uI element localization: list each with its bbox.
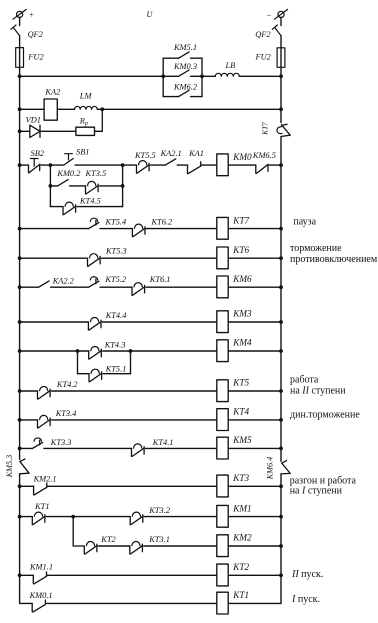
relay coil KM0 (217, 154, 228, 176)
wire (228, 164, 255, 166)
svg-text:КТ4.1: КТ4.1 (152, 438, 174, 447)
node junction 281.0,258.2 (279, 256, 283, 260)
svg-text:КМ5: КМ5 (232, 435, 252, 445)
svg-text:КМ1.1: КМ1.1 (29, 563, 53, 572)
svg-text:КМ0.1: КМ0.1 (29, 591, 53, 600)
wire (20, 447, 33, 449)
wire (48, 574, 218, 576)
svg-text:SB2: SB2 (31, 149, 45, 158)
svg-text:КА2.2: КА2.2 (52, 276, 74, 285)
relay coil KT4 (217, 409, 228, 431)
svg-text:КТ3: КТ3 (232, 473, 249, 483)
node junction 77.5,351.0 (76, 349, 80, 353)
breaker QF2 left (11, 25, 20, 36)
branch verticals row6 (78, 351, 131, 374)
node junction 50.4,165.1 (49, 163, 53, 167)
node junction 50.4,185.9 (49, 184, 53, 188)
wire (20, 574, 34, 576)
relay coil KM3 (217, 311, 228, 333)
node junction 19.6,391.0 (18, 389, 22, 393)
wire (19, 36, 21, 48)
wire (103, 373, 131, 375)
svg-text:КМ0: КМ0 (232, 152, 252, 162)
svg-text:FU2: FU2 (27, 52, 43, 61)
relay coil KT2 (217, 564, 228, 586)
contact KT7 (timed, in right rail) (281, 124, 290, 136)
svg-text:на II ступени: на II ступени (290, 385, 346, 396)
relay coil KT5 (217, 380, 228, 402)
wire (102, 257, 218, 259)
wire (20, 516, 33, 518)
svg-text:КТ1: КТ1 (232, 590, 249, 600)
svg-text:КТ5.4: КТ5.4 (105, 218, 127, 227)
node junction 202,76.3 (200, 74, 204, 78)
fuse FU2 right (277, 48, 285, 68)
wire (202, 75, 215, 77)
wire (20, 602, 33, 604)
wire (46, 516, 130, 518)
wire (146, 447, 218, 449)
svg-text:II пуск.: II пуск. (291, 569, 323, 580)
svg-text:КА2.1: КА2.1 (160, 149, 182, 158)
svg-text:КМ3: КМ3 (232, 309, 252, 319)
svg-text:торможение: торможение (290, 243, 342, 254)
relay coil KT6 (217, 247, 228, 269)
node junction 281.0,391.0 (279, 389, 283, 393)
svg-text:КТ1: КТ1 (34, 502, 49, 511)
svg-text:КМ6: КМ6 (232, 274, 252, 284)
node junction 281.0,546.0 (279, 544, 283, 548)
svg-text:КМ0.3: КМ0.3 (173, 62, 197, 71)
wire (228, 321, 281, 323)
wire (70, 185, 86, 187)
wire (19, 474, 21, 604)
svg-text:LM: LM (79, 91, 93, 100)
contact KM5.3 (in left rail) (20, 459, 30, 474)
wire (269, 164, 281, 166)
svg-text:КТ4.2: КТ4.2 (56, 380, 78, 389)
top bus wire (20, 75, 164, 77)
node junction 130.5,351.0 (129, 349, 133, 353)
wire (40, 130, 76, 132)
svg-text:противовключением: противовключением (290, 254, 378, 265)
wire (75, 164, 136, 166)
svg-text:КТ3.1: КТ3.1 (148, 535, 170, 544)
svg-text:QF2: QF2 (255, 30, 270, 39)
wire (19, 67, 21, 459)
node junction 19.6,109.3 (18, 107, 22, 111)
svg-text:КТ5.5: КТ5.5 (134, 151, 156, 160)
node junction 163.2,76.3 (161, 74, 165, 78)
svg-text:КТ3.2: КТ3.2 (148, 506, 170, 515)
svg-text:КТ3.5: КТ3.5 (85, 169, 107, 178)
fuse FU2 left (16, 48, 24, 68)
node junction 281.0,486.3 (279, 484, 283, 488)
svg-text:КТ6: КТ6 (232, 245, 249, 255)
node junction 122.6,185.9 (121, 184, 125, 188)
breaker QF2 right (272, 25, 281, 36)
node junction 281.0,287.2 (279, 285, 283, 289)
wire (228, 602, 281, 604)
wire (20, 350, 89, 352)
node junction 19.6,76.3 (18, 74, 22, 78)
wire (44, 447, 132, 449)
wire (95, 109, 103, 131)
node junction 19.6,287.2 (18, 285, 22, 289)
wire (100, 286, 132, 288)
wire (151, 164, 166, 166)
wire (228, 350, 281, 352)
wire (280, 137, 282, 462)
relay coil KM6 (217, 276, 228, 298)
wire (20, 257, 88, 259)
wire (52, 419, 218, 421)
svg-text:КТ5.3: КТ5.3 (105, 247, 127, 256)
node junction 281.0,76.3 (279, 74, 283, 78)
node junction 19.6,351.0 (18, 349, 22, 353)
wire (100, 185, 123, 187)
svg-text:КТ2: КТ2 (232, 562, 249, 572)
node junction 19.6,165.1 (18, 163, 22, 167)
wire (228, 545, 281, 547)
svg-text:КМ4: КМ4 (232, 338, 252, 348)
svg-text:КМ6.2: КМ6.2 (173, 82, 197, 91)
node junction 19.6,448.4 (18, 447, 22, 451)
wire (78, 373, 90, 375)
node junction 19.6,131.3 (18, 129, 22, 133)
wire (48, 485, 217, 487)
svg-text:КТ7: КТ7 (262, 122, 270, 136)
relay coil KM2 (217, 535, 228, 557)
wire (280, 18, 282, 26)
node junction 19.6,228.6 (18, 227, 22, 231)
wire (19, 18, 21, 26)
svg-text:КТ4: КТ4 (232, 407, 249, 417)
wire (51, 286, 89, 288)
wire (20, 228, 89, 230)
node junction 73.2,516.6 (71, 515, 75, 519)
wire (228, 447, 281, 449)
wire (228, 419, 281, 421)
resistor Rp (76, 127, 95, 135)
parallel box verticals (163, 58, 202, 96)
svg-text:КТ3.3: КТ3.3 (50, 438, 72, 447)
relay coil KM1 (217, 505, 228, 527)
svg-text:VD1: VD1 (26, 116, 41, 125)
wire (20, 390, 38, 392)
wire (20, 485, 34, 487)
node junction 19.6,516.6 (18, 515, 22, 519)
node junction 281.0,419.9 (279, 418, 283, 422)
svg-text:LB: LB (225, 61, 236, 70)
svg-text:КТ6.1: КТ6.1 (149, 275, 171, 284)
relay coil KT7 (217, 217, 228, 239)
svg-text:QF2: QF2 (28, 30, 43, 39)
wire (146, 286, 217, 288)
wire (100, 228, 132, 230)
wire (20, 321, 89, 323)
svg-text:КТ4.3: КТ4.3 (104, 341, 126, 350)
terminal + (left supply) (17, 11, 23, 17)
wire (177, 164, 187, 166)
wire (20, 286, 39, 288)
svg-text:КТ5: КТ5 (232, 378, 249, 388)
svg-text:КМ2.1: КМ2.1 (33, 475, 57, 484)
wire (228, 485, 281, 487)
wire (46, 602, 217, 604)
node junction 281.0,351.0 (279, 349, 283, 353)
wire (280, 36, 282, 48)
svg-text:КТ3.4: КТ3.4 (55, 409, 77, 418)
node junction 19.6,322.0 (18, 320, 22, 324)
wire (98, 545, 130, 547)
svg-text:КМ0.2: КМ0.2 (56, 169, 80, 178)
node junction 102.3,109.3 (100, 107, 104, 111)
wire (280, 474, 282, 604)
svg-text:SB1: SB1 (76, 147, 90, 156)
wire (103, 350, 217, 352)
node junction 281.0,109.3 (279, 107, 283, 111)
relay coil KM4 (217, 340, 228, 362)
svg-text:КМ6.5: КМ6.5 (252, 151, 276, 160)
wire (228, 228, 281, 230)
wire (97, 108, 281, 110)
svg-text:КТ6.2: КТ6.2 (151, 218, 173, 227)
wire (228, 574, 281, 576)
relay coil KT1 (217, 592, 228, 614)
wire (20, 419, 38, 421)
node junction 19.6,419.9 (18, 418, 22, 422)
svg-text:I пуск.: I пуск. (291, 594, 320, 605)
node junction 281.0,516.6 (279, 515, 283, 519)
relay coil KT3 (217, 475, 228, 497)
node junction 19.6,258.2 (18, 256, 22, 260)
wire (20, 108, 44, 110)
wire (239, 75, 281, 77)
node junction 19.6,575.3 (18, 573, 22, 577)
svg-text:КТ4.5: КТ4.5 (79, 196, 101, 205)
wire (228, 257, 281, 259)
svg-text:КТ2: КТ2 (100, 535, 115, 544)
svg-text:дин.торможение: дин.торможение (290, 410, 360, 421)
svg-text:на I ступени: на I ступени (290, 486, 343, 497)
branch vertical row13 (73, 517, 84, 546)
wire (144, 545, 217, 547)
svg-text:КТ4.4: КТ4.4 (105, 311, 127, 320)
node junction 19.6,486.3 (18, 484, 22, 488)
terminal - (right supply) (278, 11, 284, 17)
svg-text:КТ7: КТ7 (232, 215, 249, 225)
node junction 281.0,322.0 (279, 320, 283, 324)
relay coil KM5 (217, 437, 228, 459)
wire (228, 286, 281, 288)
node junction 281.0,228.6 (279, 227, 283, 231)
wire (20, 130, 30, 132)
branch verticals row1 (50, 165, 122, 207)
svg-text:FU2: FU2 (255, 52, 271, 61)
wire (146, 228, 217, 230)
wire (228, 390, 281, 392)
wire (77, 206, 123, 208)
svg-text:КА1: КА1 (188, 149, 204, 158)
svg-text:КМ5.3: КМ5.3 (5, 455, 14, 479)
svg-text:КМ6.4: КМ6.4 (266, 457, 275, 481)
contact KM6.4 (in right rail) (281, 461, 290, 474)
wire (52, 390, 218, 392)
wire (280, 67, 282, 122)
wire (102, 321, 217, 323)
svg-text:КМ5.1: КМ5.1 (173, 43, 197, 52)
svg-text:КМ1: КМ1 (232, 503, 251, 513)
svg-text:КТ5.2: КТ5.2 (104, 275, 126, 284)
svg-text:+: + (29, 10, 34, 19)
relay coil KA2 (44, 99, 57, 120)
svg-text:КМ2: КМ2 (232, 533, 252, 543)
wire (202, 164, 217, 166)
wire (41, 164, 64, 166)
svg-text:КА2: КА2 (44, 88, 60, 97)
wire (144, 516, 217, 518)
node junction 281.0,165.1 (279, 163, 283, 167)
node junction 122.6,165.1 (121, 163, 125, 167)
wire (57, 108, 74, 110)
node junction 281.0,448.4 (279, 447, 283, 451)
node junction 281.0,575.3 (279, 573, 283, 577)
svg-text:КТ5.1: КТ5.1 (105, 365, 127, 374)
wire (20, 164, 29, 166)
svg-text:пауза: пауза (293, 217, 316, 228)
wire (228, 516, 281, 518)
svg-text:работа: работа (290, 374, 319, 385)
